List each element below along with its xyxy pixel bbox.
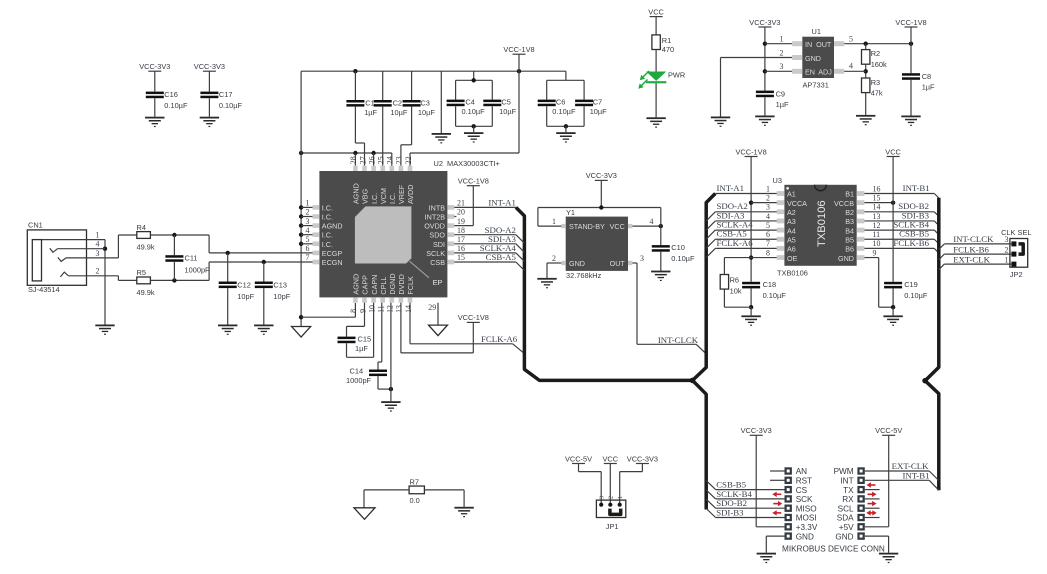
svg-text:1: 1 (552, 217, 556, 226)
svg-text:32.768kHz: 32.768kHz (566, 271, 602, 280)
svg-text:INT-CLCK: INT-CLCK (953, 234, 994, 244)
svg-text:MOSI: MOSI (796, 514, 817, 523)
svg-text:SDI-B3: SDI-B3 (716, 508, 744, 518)
svg-text:1000pF: 1000pF (346, 376, 372, 385)
svg-text:R4: R4 (137, 223, 146, 232)
svg-text:R3: R3 (871, 78, 880, 87)
svg-text:GND: GND (835, 532, 853, 541)
svg-text:1: 1 (96, 231, 100, 240)
svg-text:GND: GND (569, 259, 585, 268)
svg-text:8: 8 (349, 309, 358, 313)
svg-text:VCC-3V3: VCC-3V3 (749, 18, 780, 27)
svg-text:I.C.: I.C. (322, 203, 333, 212)
svg-text:2: 2 (1005, 245, 1009, 254)
svg-text:11: 11 (873, 230, 881, 239)
svg-text:7: 7 (766, 239, 770, 248)
svg-text:CSB-A5: CSB-A5 (486, 252, 517, 262)
svg-text:3: 3 (780, 62, 784, 71)
svg-text:C17: C17 (219, 90, 233, 99)
svg-text:23: 23 (395, 156, 404, 164)
svg-text:16: 16 (873, 184, 881, 193)
svg-text:5: 5 (766, 221, 770, 230)
svg-text:20: 20 (457, 208, 465, 217)
svg-text:7: 7 (306, 253, 310, 262)
svg-text:I.C.: I.C. (322, 240, 333, 249)
svg-text:GND: GND (796, 532, 814, 541)
svg-text:13: 13 (873, 212, 881, 221)
svg-text:CPLL: CPLL (379, 277, 388, 295)
svg-text:R6: R6 (730, 276, 739, 285)
svg-text:CAPN: CAPN (370, 275, 379, 295)
svg-text:1: 1 (780, 35, 784, 44)
svg-text:2: 2 (608, 496, 615, 499)
svg-text:FCLK-A6: FCLK-A6 (481, 334, 518, 344)
svg-text:A6: A6 (787, 245, 796, 254)
svg-text:2: 2 (552, 254, 556, 263)
svg-text:C8: C8 (922, 72, 931, 81)
svg-text:OVDD: OVDD (424, 222, 445, 231)
svg-text:B5: B5 (845, 235, 854, 244)
svg-text:C6: C6 (556, 98, 565, 107)
svg-text:26: 26 (367, 156, 376, 164)
svg-text:C10: C10 (671, 243, 685, 252)
svg-text:18: 18 (457, 226, 465, 235)
svg-text:10pF: 10pF (273, 292, 290, 301)
svg-text:TX: TX (843, 486, 854, 495)
svg-text:19: 19 (457, 217, 465, 226)
svg-text:VCC-3V3: VCC-3V3 (194, 62, 225, 71)
svg-text:2: 2 (766, 193, 770, 202)
svg-text:10µF: 10µF (499, 107, 516, 116)
svg-text:I.C.: I.C. (370, 193, 379, 204)
svg-text:160k: 160k (871, 60, 887, 69)
svg-text:AGND: AGND (322, 222, 343, 231)
svg-text:470: 470 (662, 45, 674, 54)
svg-text:0.10µF: 0.10µF (164, 101, 188, 110)
svg-text:R2: R2 (871, 49, 880, 58)
svg-text:1µF: 1µF (355, 344, 368, 353)
svg-text:VCC-1V8: VCC-1V8 (895, 18, 926, 27)
svg-text:12: 12 (386, 305, 395, 313)
svg-text:EXT-CLK: EXT-CLK (892, 461, 929, 471)
svg-text:IN: IN (805, 40, 812, 49)
svg-text:0.10µF: 0.10µF (671, 254, 695, 263)
svg-text:INT-CLCK: INT-CLCK (658, 335, 699, 345)
svg-text:INT-B1: INT-B1 (902, 471, 929, 481)
svg-text:49.9k: 49.9k (137, 288, 155, 297)
svg-text:25: 25 (377, 156, 386, 164)
svg-text:10: 10 (367, 305, 376, 313)
svg-text:MISO: MISO (796, 504, 817, 513)
svg-text:A3: A3 (787, 217, 796, 226)
svg-text:CSB: CSB (430, 258, 445, 267)
svg-text:OUT: OUT (816, 40, 832, 49)
svg-text:U2 MAX30003CTI+: U2 MAX30003CTI+ (434, 159, 500, 168)
svg-text:10pF: 10pF (237, 292, 254, 301)
svg-text:EP: EP (433, 278, 443, 287)
svg-text:4: 4 (849, 62, 853, 71)
svg-text:+3.3V: +3.3V (796, 523, 818, 532)
svg-text:21: 21 (457, 199, 465, 208)
svg-text:C2: C2 (393, 98, 402, 107)
svg-text:C4: C4 (465, 98, 474, 107)
svg-text:VCM: VCM (379, 188, 388, 204)
svg-text:C12: C12 (237, 280, 251, 289)
svg-text:CAPP: CAPP (361, 275, 370, 295)
svg-text:VCC-5V: VCC-5V (875, 426, 902, 435)
svg-text:0.10µF: 0.10µF (552, 107, 576, 116)
svg-text:2: 2 (96, 267, 100, 276)
svg-text:INT-A1: INT-A1 (488, 198, 516, 208)
svg-text:3: 3 (640, 254, 644, 263)
svg-text:C1: C1 (365, 98, 374, 107)
svg-text:24: 24 (386, 156, 395, 164)
svg-text:VCC: VCC (648, 7, 664, 16)
svg-text:0.10µF: 0.10µF (763, 291, 787, 300)
svg-text:17: 17 (457, 235, 465, 244)
svg-text:VCC-1V8: VCC-1V8 (458, 177, 489, 186)
svg-text:VCC-3V3: VCC-3V3 (139, 62, 170, 71)
svg-text:C13: C13 (273, 280, 287, 289)
svg-text:16: 16 (457, 244, 465, 253)
svg-text:B3: B3 (845, 217, 854, 226)
svg-text:SCK: SCK (796, 495, 813, 504)
svg-text:VCC-3V3: VCC-3V3 (586, 171, 617, 180)
svg-text:SDA: SDA (837, 514, 854, 523)
svg-text:2: 2 (780, 48, 784, 57)
svg-text:VCC-1V8: VCC-1V8 (458, 313, 489, 322)
svg-text:I.C.: I.C. (388, 193, 397, 204)
svg-text:8: 8 (766, 248, 770, 257)
svg-text:A2: A2 (787, 208, 796, 217)
svg-text:DGND: DGND (388, 273, 397, 294)
svg-text:1µF: 1µF (776, 100, 789, 109)
svg-text:ECGN: ECGN (322, 258, 343, 267)
svg-text:1: 1 (766, 184, 770, 193)
svg-text:0.0: 0.0 (410, 496, 420, 505)
svg-text:VCC: VCC (885, 147, 901, 156)
svg-text:CS: CS (796, 486, 808, 495)
svg-text:C16: C16 (164, 90, 178, 99)
svg-text:12: 12 (873, 221, 881, 230)
svg-text:JP1: JP1 (606, 522, 619, 531)
svg-text:AGND: AGND (352, 183, 361, 204)
svg-text:3: 3 (306, 217, 310, 226)
svg-text:10: 10 (873, 239, 881, 248)
svg-text:4: 4 (766, 212, 770, 221)
svg-text:PWM: PWM (834, 467, 854, 476)
svg-text:4: 4 (96, 240, 100, 249)
svg-text:3: 3 (766, 203, 770, 212)
svg-text:I.C.: I.C. (322, 231, 333, 240)
svg-text:10µF: 10µF (418, 108, 435, 117)
svg-text:R7: R7 (410, 477, 419, 486)
svg-text:10k: 10k (730, 286, 742, 295)
svg-text:EN: EN (805, 68, 815, 77)
svg-text:5: 5 (306, 235, 310, 244)
svg-text:6: 6 (766, 230, 770, 239)
svg-text:C18: C18 (763, 280, 777, 289)
svg-text:15: 15 (457, 253, 465, 262)
svg-text:6: 6 (306, 244, 310, 253)
svg-text:RX: RX (842, 495, 854, 504)
svg-text:0.10µF: 0.10µF (219, 101, 243, 110)
svg-text:STAND-BY: STAND-BY (569, 222, 605, 231)
svg-text:9: 9 (358, 309, 367, 313)
svg-text:4: 4 (650, 217, 654, 226)
svg-text:R5: R5 (137, 268, 146, 277)
svg-text:13: 13 (395, 305, 404, 313)
svg-text:1: 1 (1005, 255, 1009, 264)
svg-text:C19: C19 (904, 280, 918, 289)
svg-text:DVDD: DVDD (397, 274, 406, 294)
svg-text:CN1: CN1 (28, 221, 43, 230)
svg-text:AN: AN (796, 467, 807, 476)
svg-text:C3: C3 (420, 98, 429, 107)
svg-text:B1: B1 (845, 190, 854, 199)
svg-text:A4: A4 (787, 226, 796, 235)
svg-text:C7: C7 (593, 98, 602, 107)
svg-text:1µF: 1µF (922, 83, 935, 92)
svg-text:1µF: 1µF (364, 108, 377, 117)
svg-text:AGND: AGND (352, 274, 361, 295)
svg-text:FCLK: FCLK (406, 276, 415, 295)
svg-text:0.10µF: 0.10µF (904, 291, 928, 300)
svg-text:SDI: SDI (433, 240, 445, 249)
svg-text:VCCA: VCCA (787, 199, 807, 208)
svg-text:C11: C11 (185, 254, 198, 263)
svg-text:INTB: INTB (429, 203, 446, 212)
svg-text:+5V: +5V (839, 523, 854, 532)
svg-text:FCLK-A6: FCLK-A6 (717, 238, 754, 248)
svg-text:ADJ: ADJ (818, 68, 832, 77)
svg-text:PWR: PWR (668, 71, 685, 80)
svg-text:TXB0106: TXB0106 (777, 269, 808, 278)
svg-text:VCC-1V8: VCC-1V8 (503, 45, 534, 54)
svg-text:AVDD: AVDD (406, 185, 415, 204)
svg-text:OUT: OUT (610, 259, 626, 268)
svg-text:CLK SEL: CLK SEL (1001, 228, 1031, 237)
svg-text:B4: B4 (845, 226, 854, 235)
svg-text:10µF: 10µF (390, 108, 407, 117)
svg-text:U3: U3 (773, 176, 782, 185)
svg-text:B2: B2 (845, 208, 854, 217)
svg-text:29: 29 (428, 303, 436, 312)
svg-text:14: 14 (404, 305, 413, 313)
svg-text:15: 15 (873, 193, 881, 202)
svg-text:28: 28 (349, 156, 358, 164)
svg-text:VREF: VREF (397, 184, 406, 204)
svg-text:0.10µF: 0.10µF (462, 107, 486, 116)
svg-text:1: 1 (617, 496, 624, 499)
svg-text:5: 5 (849, 35, 853, 44)
svg-text:C14: C14 (350, 367, 364, 376)
svg-text:GND: GND (805, 54, 821, 63)
svg-text:14: 14 (873, 203, 881, 212)
svg-text:C9: C9 (776, 89, 785, 98)
svg-text:49.9k: 49.9k (137, 243, 155, 252)
svg-text:ECGP: ECGP (322, 249, 343, 258)
svg-text:10µF: 10µF (590, 107, 607, 116)
svg-text:C5: C5 (501, 98, 510, 107)
svg-text:SDO: SDO (429, 231, 445, 240)
svg-text:Y1: Y1 (566, 208, 575, 217)
svg-text:SCLK: SCLK (426, 249, 445, 258)
svg-text:1000pF: 1000pF (185, 266, 211, 275)
svg-text:INT-A1: INT-A1 (717, 183, 745, 193)
svg-text:AP7331: AP7331 (803, 81, 829, 90)
svg-text:JP2: JP2 (1010, 270, 1023, 279)
svg-text:22: 22 (404, 156, 413, 164)
svg-text:3: 3 (96, 249, 100, 258)
svg-text:VCC: VCC (610, 222, 625, 231)
svg-text:9: 9 (873, 248, 877, 257)
svg-text:U1: U1 (812, 27, 821, 36)
svg-text:VCC-3V3: VCC-3V3 (627, 454, 658, 463)
svg-text:47k: 47k (871, 89, 883, 98)
svg-text:A5: A5 (787, 235, 796, 244)
svg-text:3: 3 (599, 496, 606, 499)
svg-text:R1: R1 (662, 36, 671, 45)
svg-text:SJ-43514: SJ-43514 (28, 285, 60, 294)
svg-text:INT-B1: INT-B1 (903, 183, 930, 193)
svg-text:VCC: VCC (602, 454, 618, 463)
svg-text:OE: OE (787, 254, 798, 263)
svg-text:FCLK-B6: FCLK-B6 (953, 244, 989, 254)
svg-text:2: 2 (306, 208, 310, 217)
svg-text:VCC-3V3: VCC-3V3 (741, 426, 772, 435)
svg-text:A1: A1 (787, 190, 796, 199)
svg-text:GND: GND (838, 254, 854, 263)
svg-text:1: 1 (306, 199, 310, 208)
svg-text:SCL: SCL (838, 504, 854, 513)
svg-text:4: 4 (306, 226, 310, 235)
svg-text:C15: C15 (358, 335, 372, 344)
svg-text:EXT-CLK: EXT-CLK (953, 254, 990, 264)
svg-text:MIKROBUS DEVICE CONN: MIKROBUS DEVICE CONN (782, 545, 885, 554)
svg-text:TXB0106: TXB0106 (816, 200, 828, 247)
svg-text:11: 11 (377, 305, 386, 313)
svg-text:VCC-1V8: VCC-1V8 (735, 147, 766, 156)
svg-text:VBG: VBG (361, 188, 370, 204)
svg-text:VCC-5V: VCC-5V (565, 454, 592, 463)
svg-text:I.C.: I.C. (322, 213, 333, 222)
svg-text:VCCB: VCCB (834, 199, 854, 208)
svg-text:RST: RST (796, 477, 812, 486)
svg-text:INT2B: INT2B (425, 213, 446, 222)
svg-text:FCLK-B6: FCLK-B6 (893, 238, 929, 248)
svg-text:INT: INT (840, 477, 853, 486)
svg-text:27: 27 (358, 156, 367, 164)
svg-text:B6: B6 (845, 245, 854, 254)
